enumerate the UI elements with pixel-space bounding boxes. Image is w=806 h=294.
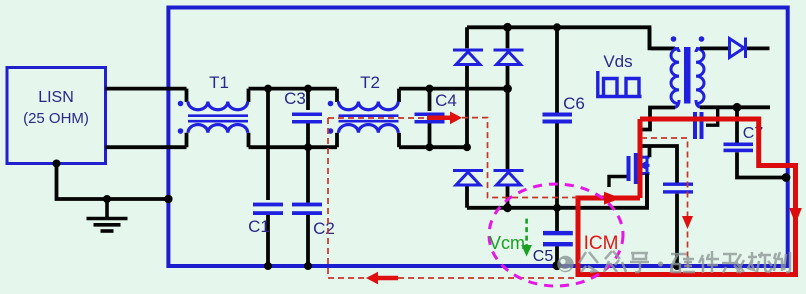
bridge left leg wire [465,27,469,208]
transformer polarity dot primary [671,36,677,42]
wire T1 to T2 bottom [249,145,338,149]
svg-text:T2: T2 [360,73,380,92]
wire LISN top to T1 [106,87,187,91]
common-mode choke T2 [328,89,399,148]
wire diode to edge [747,47,770,51]
Vcm green arrow [525,219,528,246]
drain-to-chassis parasitic capacitor [640,146,693,266]
svg-text:(25 OHM): (25 OHM) [23,110,89,127]
wire LISN bottom to T1 [106,145,187,149]
watermark logo [557,256,573,272]
diode D1 (bridge top-left) [453,50,483,65]
interwinding capacitance [693,107,718,139]
capacitor C6 / C5 line [543,27,573,266]
ICM arrow down (right segment) [789,208,802,224]
svg-text:LISN: LISN [38,89,74,106]
capacitor C3 + C2 shared line [292,89,322,266]
watermark text (approximated CJK strokes) [579,251,790,273]
dashed noise path right branch [641,138,688,271]
svg-text:C6: C6 [563,94,585,113]
common-mode choke T1 [178,89,249,148]
dashed path arrow right (at C4) [427,112,462,125]
bridge right leg wire [506,27,510,208]
svg-text:C3: C3 [284,89,306,108]
wire T1 to T2 top [249,87,338,91]
node ground tap [103,195,111,203]
flyback transformer primary winding [640,27,679,129]
DC+ top rail [467,27,671,48]
ground [87,199,128,231]
ICM arrow right (bottom segment) [604,192,621,205]
dashed noise path left loop [328,118,578,278]
diode D4 (bridge bottom-right) [494,171,524,186]
diode D3 (bridge bottom-left) [453,171,483,186]
node chassis tie [164,195,172,203]
DC- rail [467,174,647,208]
dashed path arrow left (bottom) [366,272,398,285]
capacitor C1 [253,89,283,266]
svg-text:Vcm: Vcm [489,233,525,253]
capacitor C7 [724,107,787,177]
chassis enclosure (blue frame) [168,8,787,267]
transformer polarity dot secondary [699,36,705,42]
output diode [730,38,746,59]
capacitor C4 [415,89,445,148]
wire T2 to bridge bottom [399,145,467,149]
magenta highlight ellipse [489,184,623,286]
ICM thick red loop [578,119,796,275]
diode D2 (bridge top-right) [494,50,524,65]
svg-text:Vds: Vds [603,52,632,71]
svg-text:C1: C1 [248,217,270,236]
svg-text:T1: T1 [209,73,229,92]
svg-text:C5: C5 [533,248,554,265]
LISN box [7,68,106,164]
transformer core [684,47,691,104]
svg-text:C2: C2 [313,219,335,238]
flyback transformer secondary winding [696,48,770,107]
node LISN bottom [53,160,61,168]
wire LISN ground drop [57,164,169,200]
dashed path arrow down (right branch) [682,216,693,229]
Vds waveform icon [598,71,642,97]
svg-text:C4: C4 [435,91,457,110]
wire T2 to bridge top [399,87,508,91]
MOSFET Q1 [609,146,650,208]
